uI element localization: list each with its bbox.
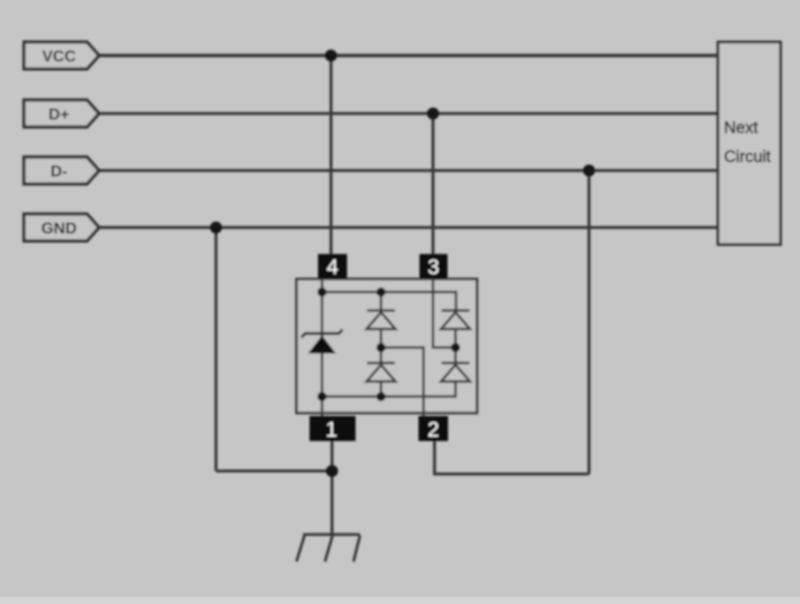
svg-text:D-: D- [51,163,68,180]
svg-text:Next: Next [724,119,758,137]
svg-text:4: 4 [327,256,339,279]
svg-text:GND: GND [41,220,77,237]
svg-text:Circuit: Circuit [724,148,771,166]
svg-text:3: 3 [428,256,440,279]
svg-text:VCC: VCC [42,48,76,65]
svg-text:1: 1 [326,419,338,442]
svg-text:2: 2 [427,419,439,442]
svg-text:D+: D+ [49,106,70,123]
